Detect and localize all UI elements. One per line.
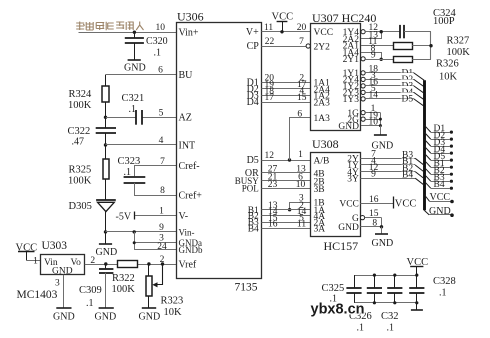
IC U303 MC1403	[17, 240, 85, 301]
svg-text:1Y3: 1Y3	[343, 95, 360, 105]
svg-text:11: 11	[297, 220, 306, 230]
node GND link junction	[133, 230, 136, 233]
svg-text:VCC: VCC	[395, 198, 417, 209]
capacitor C323	[118, 156, 146, 183]
wire U303 pin 3 to ground	[55, 275, 64, 308]
svg-text:10K: 10K	[164, 307, 183, 318]
svg-text:Vref: Vref	[179, 259, 197, 270]
svg-text:100K: 100K	[447, 47, 471, 58]
wire bus fan-out net D2	[424, 131, 453, 141]
wire U306 pin 27 OR to U308 pin 13 (4B)	[262, 164, 312, 174]
svg-text:7135: 7135	[235, 281, 258, 293]
power VCC (cap bank)	[407, 257, 429, 275]
svg-text:2A3: 2A3	[314, 98, 331, 108]
svg-text:20: 20	[297, 23, 307, 33]
svg-text:AZ: AZ	[179, 113, 192, 124]
svg-text:.1: .1	[439, 288, 447, 299]
label C326	[349, 311, 372, 334]
wire oscillator right vertical	[430, 32, 432, 60]
ground (U303 pin 3)	[53, 308, 75, 323]
svg-text:5: 5	[159, 108, 164, 118]
wire U306 pin 21 BUSY to U308 pin 6 (2B)	[262, 172, 312, 182]
svg-text:R323: R323	[161, 296, 184, 307]
svg-text:3: 3	[55, 279, 60, 289]
wire bus fan-out net D4	[424, 145, 453, 155]
wire U306 B3 to U308	[262, 213, 312, 223]
capacitor C309	[79, 264, 113, 309]
bus line (data bus)	[423, 80, 426, 210]
wire U306 pin 5 (AZ)	[106, 108, 177, 118]
node AZ junction	[104, 116, 107, 119]
svg-text:4: 4	[159, 136, 164, 146]
IC U308 74HC157 multiplexer	[311, 137, 361, 253]
svg-text:R324: R324	[69, 89, 93, 100]
potentiometer R323	[146, 264, 183, 318]
wire U307 output 5 net D4	[365, 84, 424, 100]
svg-text:C320: C320	[146, 36, 168, 47]
wire U307 output 16 net D3	[365, 77, 424, 93]
svg-text:2Y1: 2Y1	[343, 55, 360, 65]
capacitor C321	[122, 93, 145, 125]
svg-text:10K: 10K	[439, 71, 458, 82]
svg-text:.1: .1	[129, 104, 137, 115]
svg-text:C309: C309	[79, 285, 102, 296]
svg-text:3Y: 3Y	[347, 174, 359, 184]
wire bus fan-out VCC	[424, 192, 454, 203]
resistor R325	[68, 145, 109, 200]
ground (below D305)	[96, 232, 118, 258]
svg-text:7: 7	[299, 37, 304, 47]
svg-text:C323: C323	[118, 156, 141, 167]
wire bus fan-out GND	[424, 206, 454, 217]
svg-text:1: 1	[159, 207, 164, 217]
resistor R327	[394, 36, 471, 59]
svg-text:GND: GND	[338, 223, 359, 233]
svg-text:22: 22	[265, 37, 275, 47]
svg-text:D305: D305	[69, 201, 92, 212]
svg-text:GND: GND	[338, 122, 359, 132]
svg-text:C322: C322	[68, 126, 91, 137]
wire U306 D3 to U307	[262, 87, 312, 97]
wire U308 pin 8 GND	[360, 218, 381, 229]
wire U308 output 12 net B2	[360, 163, 424, 179]
wire U307 pin 12 (1Y4) to C324	[365, 23, 400, 33]
svg-text:C325: C325	[322, 283, 345, 294]
svg-text:7: 7	[160, 157, 165, 167]
svg-text:1: 1	[33, 257, 38, 267]
svg-text:Vin-: Vin-	[179, 227, 195, 237]
capacitor C326	[367, 275, 382, 303]
svg-text:.1: .1	[86, 298, 94, 309]
svg-text:R325: R325	[69, 165, 92, 176]
ground (below R323)	[139, 308, 161, 323]
svg-text:14: 14	[369, 90, 379, 100]
node 1Y4/2A2 junction	[380, 30, 383, 33]
wire U308 output 7 net B3	[360, 150, 424, 166]
wire bus fan-out net D5	[424, 152, 453, 162]
wire U306 pin 23 POL to U308 pin 10 (3B)	[262, 180, 312, 190]
node Vref wiper junction	[161, 262, 164, 265]
ground (below C320)	[124, 60, 146, 74]
IC U306 ICL7135 ADC	[177, 10, 262, 294]
wire U307 output 14 net D5	[365, 90, 424, 106]
wire U306 pin 24 (GNDb)	[134, 242, 176, 252]
wire cap bank bottom rail	[354, 301, 418, 304]
svg-text:R327: R327	[447, 36, 470, 47]
wire sensor input to U306 pin 10 (Vin+)	[79, 23, 177, 33]
wire bus fan-out net B3	[424, 173, 453, 183]
node B1/1B junction	[288, 208, 291, 211]
wire bus fan-out net B4	[424, 180, 453, 190]
svg-text:-5V: -5V	[116, 212, 132, 223]
svg-text:GND: GND	[124, 63, 146, 74]
wire U306 B1 to U308	[262, 201, 312, 211]
svg-text:HC157: HC157	[324, 239, 359, 253]
node R323 junction	[147, 262, 150, 265]
svg-text:GND: GND	[52, 267, 73, 277]
svg-text:.47: .47	[72, 137, 85, 148]
svg-text:D4: D4	[247, 97, 259, 108]
wire U306 D2 to U307	[262, 80, 312, 90]
node Vin+ / C320 junction	[133, 31, 136, 34]
svg-text:POL: POL	[242, 184, 259, 194]
svg-text:GND: GND	[139, 312, 161, 323]
node C309 junction	[104, 262, 107, 265]
svg-text:Cref+: Cref+	[179, 191, 203, 202]
wire U306 B2 to U308	[262, 207, 312, 217]
svg-text:MC1403: MC1403	[17, 289, 58, 301]
wire U307 output 3 net D2	[365, 71, 424, 87]
svg-text:VCC: VCC	[314, 28, 334, 38]
capacitor C328	[409, 275, 424, 303]
svg-text:CP: CP	[247, 41, 260, 52]
svg-text:.1: .1	[387, 323, 395, 334]
power VCC (top)	[272, 12, 294, 34]
svg-text:VCC: VCC	[339, 200, 359, 210]
svg-text:B4: B4	[248, 225, 259, 235]
svg-text:B4: B4	[434, 180, 445, 190]
wire U307 pin 13 (2A2) feedback	[361, 30, 382, 40]
svg-text:C32: C32	[381, 311, 399, 322]
svg-text:Cref-: Cref-	[179, 161, 200, 172]
node 1A4/2Y1 junction	[380, 58, 383, 61]
svg-text:Vin+: Vin+	[179, 28, 199, 39]
wire bus fan-out net D1	[424, 124, 453, 134]
svg-text:GND: GND	[372, 238, 394, 249]
svg-text:2Y2: 2Y2	[314, 42, 331, 52]
svg-text:24: 24	[157, 242, 167, 252]
svg-text:U307 HC240: U307 HC240	[312, 11, 376, 25]
wire U306 pin 2 (Vref)	[85, 255, 177, 266]
svg-text:ybx8.cn: ybx8.cn	[311, 302, 365, 318]
svg-text:3A: 3A	[314, 225, 326, 235]
ground (cap bank)	[411, 303, 423, 310]
wire U307 pin 8 (1A4) feedback	[361, 44, 382, 60]
watermark ybx8.cn	[311, 302, 365, 318]
svg-text:BU: BU	[179, 70, 194, 81]
IC U307 74HC240 octal inverting buffer	[311, 11, 377, 132]
capacitor C324	[400, 8, 457, 39]
svg-text:VCC: VCC	[407, 257, 429, 268]
label C325	[322, 283, 345, 305]
svg-text:23: 23	[268, 180, 278, 190]
svg-text:D5: D5	[402, 95, 414, 105]
wire U306 B4 to U308	[262, 220, 312, 230]
diode D305	[69, 200, 116, 232]
ground (below C309)	[95, 308, 117, 323]
resistor R326	[394, 57, 459, 83]
wire U308 output 4 net B1	[360, 156, 424, 172]
power VCC (U303)	[16, 243, 38, 261]
svg-text:C328: C328	[433, 276, 456, 287]
node R327 output junction	[429, 44, 432, 47]
wire bus fan-out net B2	[424, 166, 453, 176]
wire U306 pin 12 D5 to U308 pin 1 A/B	[262, 150, 312, 161]
svg-text:C321: C321	[122, 93, 145, 104]
svg-text:1: 1	[298, 150, 303, 160]
svg-text:12: 12	[265, 151, 275, 161]
wire U306 pin 22 CP to U307 pin 7 (2Y2)	[262, 37, 307, 47]
wire U307 1G/2G/GND to ground	[361, 104, 382, 134]
wire cap bank top rail	[354, 274, 418, 277]
wire U306 pin 4 (INT)	[106, 136, 177, 146]
wire bus fan-out net D3	[424, 138, 453, 148]
wire U306 pin 11 V+ to U307 pin 20 VCC	[262, 23, 312, 33]
svg-text:9: 9	[159, 223, 164, 233]
svg-text:10: 10	[369, 118, 379, 128]
svg-text:INT: INT	[179, 140, 196, 151]
svg-text:10: 10	[156, 23, 166, 33]
svg-text:B4: B4	[402, 170, 413, 180]
svg-text:A/B: A/B	[314, 156, 330, 166]
svg-text:.1: .1	[154, 48, 162, 59]
wire U303 pin 1	[26, 257, 41, 267]
node Vin- junction	[104, 230, 107, 233]
svg-text:V-: V-	[179, 211, 189, 222]
svg-text:2: 2	[90, 256, 95, 266]
label C328	[433, 276, 456, 299]
svg-text:1A3: 1A3	[314, 114, 331, 124]
svg-text:U303: U303	[42, 240, 68, 252]
svg-text:17: 17	[265, 93, 275, 103]
svg-text:100K: 100K	[68, 176, 92, 187]
wire bus fan-out net B1	[424, 159, 453, 169]
wire U306 pin 3 (GNDa)	[133, 232, 177, 250]
capacitor C322	[68, 117, 117, 147]
power VCC (U308 pin16)	[394, 197, 417, 210]
node INT junction	[104, 143, 107, 146]
svg-text:GND: GND	[96, 247, 118, 258]
svg-text:V+: V+	[246, 27, 259, 38]
svg-text:.1: .1	[357, 323, 365, 334]
wire U306 pin 9 (Vin-)	[106, 223, 177, 233]
svg-text:U306: U306	[177, 10, 204, 24]
svg-text:U308: U308	[312, 137, 339, 151]
ground (U308)	[372, 227, 394, 249]
svg-text:3B: 3B	[314, 185, 325, 195]
ground (U307)	[372, 135, 394, 151]
wire D5 to U307 pin 6 (1A3)	[290, 109, 312, 160]
svg-text:8: 8	[372, 219, 377, 229]
resistor R324	[68, 75, 109, 118]
svg-text:GND: GND	[53, 312, 75, 323]
svg-text:9: 9	[371, 51, 376, 61]
svg-text:6: 6	[158, 66, 163, 76]
wire U306 D1 to U307	[262, 74, 312, 84]
sensor signal input label (传感器信号输入)	[76, 22, 143, 31]
terminal -5V	[116, 212, 135, 223]
svg-text:D5: D5	[247, 155, 259, 166]
svg-text:.1: .1	[124, 167, 132, 178]
capacitor C320	[125, 32, 168, 60]
svg-text:16: 16	[369, 195, 379, 205]
capacitor C327	[387, 275, 402, 303]
svg-text:100K: 100K	[112, 284, 136, 295]
svg-text:16: 16	[268, 220, 278, 230]
svg-text:100P: 100P	[433, 16, 455, 27]
wire U308 pin 15 G	[360, 209, 381, 220]
node U308 ground junction	[380, 225, 383, 228]
inverter bubble 2Y2 input side	[306, 44, 310, 48]
wire U308 output 9 net B4	[360, 170, 424, 186]
svg-text:R322: R322	[112, 273, 135, 284]
label C327	[381, 311, 399, 334]
svg-text:11: 11	[264, 23, 273, 33]
wire B1 to U308 pin 3 (1B) bracket	[290, 194, 312, 210]
svg-text:VCC: VCC	[430, 192, 451, 203]
wire U307 pin 11 (2A1) to R327	[361, 37, 393, 47]
svg-text:VCC: VCC	[272, 12, 294, 23]
wire U307 output 18 net D1	[365, 64, 424, 80]
wire U306 pin 8 (Cref+)	[135, 183, 177, 196]
svg-text:9: 9	[371, 170, 376, 180]
svg-text:R326: R326	[436, 59, 459, 70]
node D5/1A3 junction	[288, 158, 291, 161]
svg-text:100K: 100K	[68, 100, 92, 111]
capacitor C325	[346, 275, 361, 303]
wire U306 pin 7 (Cref-)	[135, 157, 177, 177]
svg-text:GNDb: GNDb	[179, 245, 203, 255]
svg-text:6: 6	[297, 109, 302, 119]
svg-text:GND: GND	[95, 312, 117, 323]
wire U306 pin 1 (V-)	[135, 207, 177, 217]
wire U306 D4 to U307	[262, 93, 312, 103]
svg-text:15: 15	[297, 93, 307, 103]
wire U308 pin 16 VCC	[360, 195, 393, 205]
svg-text:10: 10	[296, 180, 306, 190]
svg-text:GND: GND	[429, 206, 451, 217]
wire U306 pin 6 (BU)	[106, 66, 177, 76]
svg-text:8: 8	[160, 186, 165, 196]
wire U307 pin 9 (2Y1) to R326	[365, 51, 393, 61]
resistor R322	[112, 261, 138, 296]
